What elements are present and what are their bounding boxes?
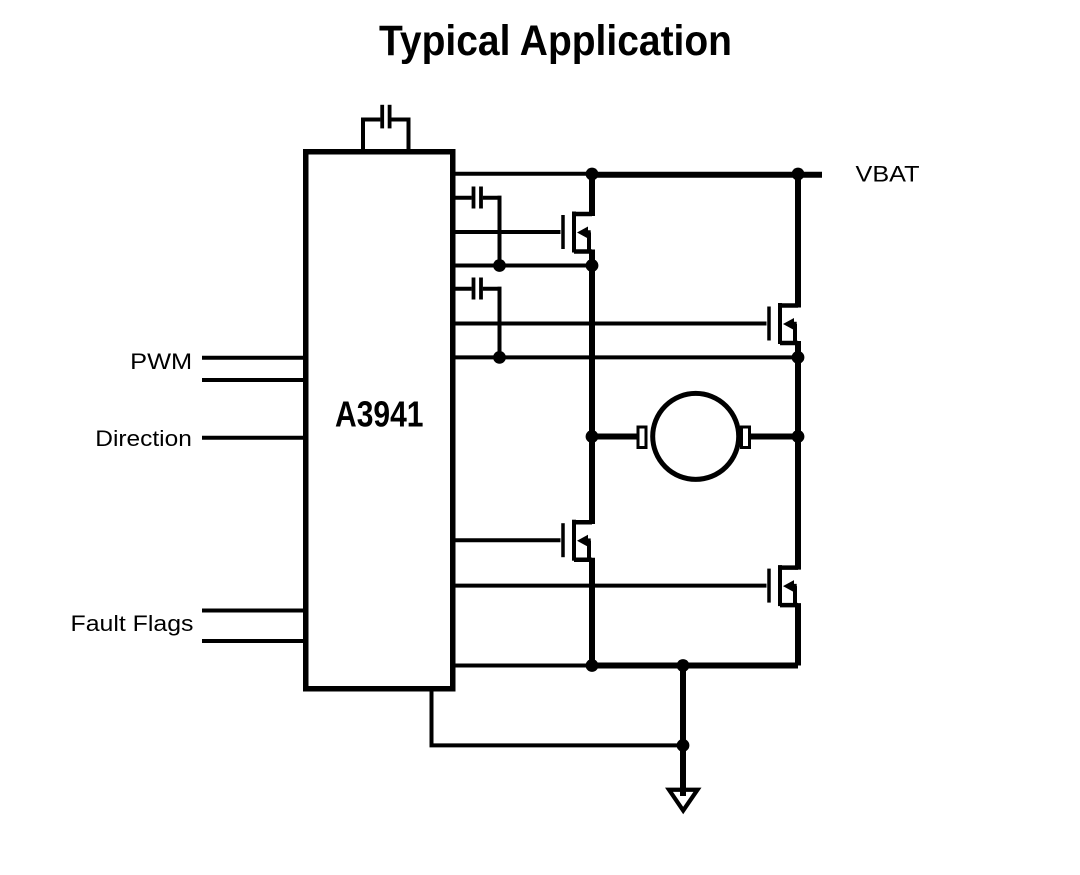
motor M1 bbox=[592, 393, 798, 479]
wire C2 to SA node bbox=[498, 196, 502, 266]
wire SA sense line bbox=[453, 264, 592, 268]
Q4 channel bar bbox=[778, 565, 782, 606]
node junction motor left bbox=[586, 430, 599, 443]
op-amp U1 A3941 IC body bbox=[306, 152, 453, 689]
wire LSS sense line bbox=[453, 664, 592, 668]
svg-text:PWM: PWM bbox=[130, 349, 192, 374]
wire GLB gate line bbox=[453, 584, 767, 588]
wire motor right lead (thick) bbox=[750, 434, 799, 440]
wire C3 right lead bbox=[483, 287, 502, 291]
wire Q3 source to LSS rail (thick) bbox=[589, 558, 595, 666]
wire C2 right lead bbox=[483, 196, 502, 200]
C2 left plate bbox=[472, 187, 476, 209]
node junction SA phase bbox=[586, 259, 599, 272]
svg-text:Fault Flags: Fault Flags bbox=[71, 611, 194, 636]
Q4 source stub bbox=[780, 603, 798, 608]
C3 left plate bbox=[472, 278, 476, 300]
wire stub into ground symbol bbox=[680, 780, 686, 796]
wire Q4 source to bottom rail (thick) bbox=[795, 603, 801, 665]
wire PWM line 2 bbox=[202, 378, 305, 382]
Q2 drain stub bbox=[780, 303, 798, 308]
node junction gnd wire bbox=[677, 739, 690, 752]
transistor Q4 (low side B) bbox=[769, 565, 798, 606]
wire motor left lead (thick) bbox=[592, 434, 640, 440]
wire Q2 drain to VBAT (thick) bbox=[795, 174, 801, 308]
Q3 body arrow bbox=[577, 535, 588, 547]
M1 right terminal bbox=[742, 427, 750, 448]
ground symbol bbox=[669, 790, 698, 811]
Q3 channel bar bbox=[572, 520, 576, 561]
svg-text:A3941: A3941 bbox=[335, 394, 424, 435]
node junction motor right bbox=[792, 430, 805, 443]
node junction VBAT-left bbox=[586, 168, 599, 181]
capacitor C1 (charge pump, top of IC) bbox=[361, 105, 411, 152]
transistor Q2 (high side B) bbox=[769, 303, 798, 344]
Q2 channel bar bbox=[778, 303, 782, 344]
wire Direction line bbox=[202, 436, 305, 440]
node junction VBAT-right bbox=[792, 168, 805, 181]
wire Q1 drain to VBAT (thick) bbox=[589, 174, 595, 216]
wire bottom sense rail (thick) bbox=[592, 663, 798, 669]
wire GHA gate line bbox=[453, 230, 561, 234]
Q1 gate bar bbox=[561, 215, 565, 249]
capacitor C3 (bootstrap B) bbox=[453, 278, 502, 358]
wire CA pin lead bbox=[453, 196, 472, 200]
wire IC GND pin horizontal to gnd node bbox=[430, 743, 684, 747]
wire PWM line 1 bbox=[202, 356, 305, 360]
wire C3 to SB node bbox=[498, 287, 502, 358]
wire Fault Flags line 2 bbox=[202, 639, 305, 643]
Q2 gate bar bbox=[767, 307, 771, 341]
wire C1 left lead bbox=[361, 118, 365, 153]
Q2 body arrow bbox=[783, 318, 794, 330]
wire CB pin lead bbox=[453, 287, 472, 291]
node junction C3/SB bbox=[493, 351, 506, 364]
svg-text:Direction: Direction bbox=[95, 426, 192, 451]
M1 left terminal bbox=[638, 427, 646, 448]
node junction LSS bbox=[586, 659, 599, 672]
wire Q2 source / phase B column (thick) bbox=[795, 341, 801, 570]
wire GLA gate line bbox=[453, 538, 561, 542]
Q1 channel bar bbox=[572, 212, 576, 253]
svg-text:VBAT: VBAT bbox=[856, 162, 920, 187]
wire VDRAIN pin to VBAT rail bbox=[453, 172, 592, 176]
wire ground drop (thick) bbox=[680, 666, 686, 789]
wire GHB gate line bbox=[453, 322, 767, 326]
transistor Q1 (high side A) bbox=[563, 212, 592, 253]
Q3 drain stub bbox=[574, 520, 592, 525]
C2 right plate bbox=[479, 187, 483, 209]
Q1 drain stub bbox=[574, 212, 592, 217]
Q3 source stub bbox=[574, 557, 592, 562]
node junction SB phase bbox=[792, 351, 805, 364]
wire Fault Flags line 1 bbox=[202, 609, 305, 613]
wire Q1 source / phase A column (thick) bbox=[589, 250, 595, 525]
Q2 source stub bbox=[780, 341, 798, 346]
Q4 drain stub bbox=[780, 565, 798, 570]
C1 left plate bbox=[380, 105, 384, 129]
Q3 gate bar bbox=[561, 523, 565, 557]
svg-text:Typical Application: Typical Application bbox=[379, 18, 732, 65]
capacitor C2 (bootstrap A) bbox=[453, 187, 502, 266]
wire IC GND pin down from IC bottom bbox=[430, 688, 434, 745]
node junction C2/SA bbox=[493, 259, 506, 272]
Q1 source stub bbox=[574, 249, 592, 254]
C3 right plate bbox=[479, 278, 483, 300]
Q4 body arrow bbox=[783, 580, 794, 592]
wire SB sense line bbox=[453, 355, 798, 359]
node junction bottom rail T bbox=[677, 659, 690, 672]
Q1 body arrow bbox=[577, 227, 588, 239]
wire C1 right lead bbox=[391, 118, 410, 122]
transistor Q3 (low side A) bbox=[563, 520, 592, 561]
C1 right plate bbox=[388, 105, 392, 129]
M1 body circle bbox=[653, 393, 739, 479]
wire VBAT rail (thick) bbox=[592, 172, 822, 178]
Q4 gate bar bbox=[767, 569, 771, 603]
